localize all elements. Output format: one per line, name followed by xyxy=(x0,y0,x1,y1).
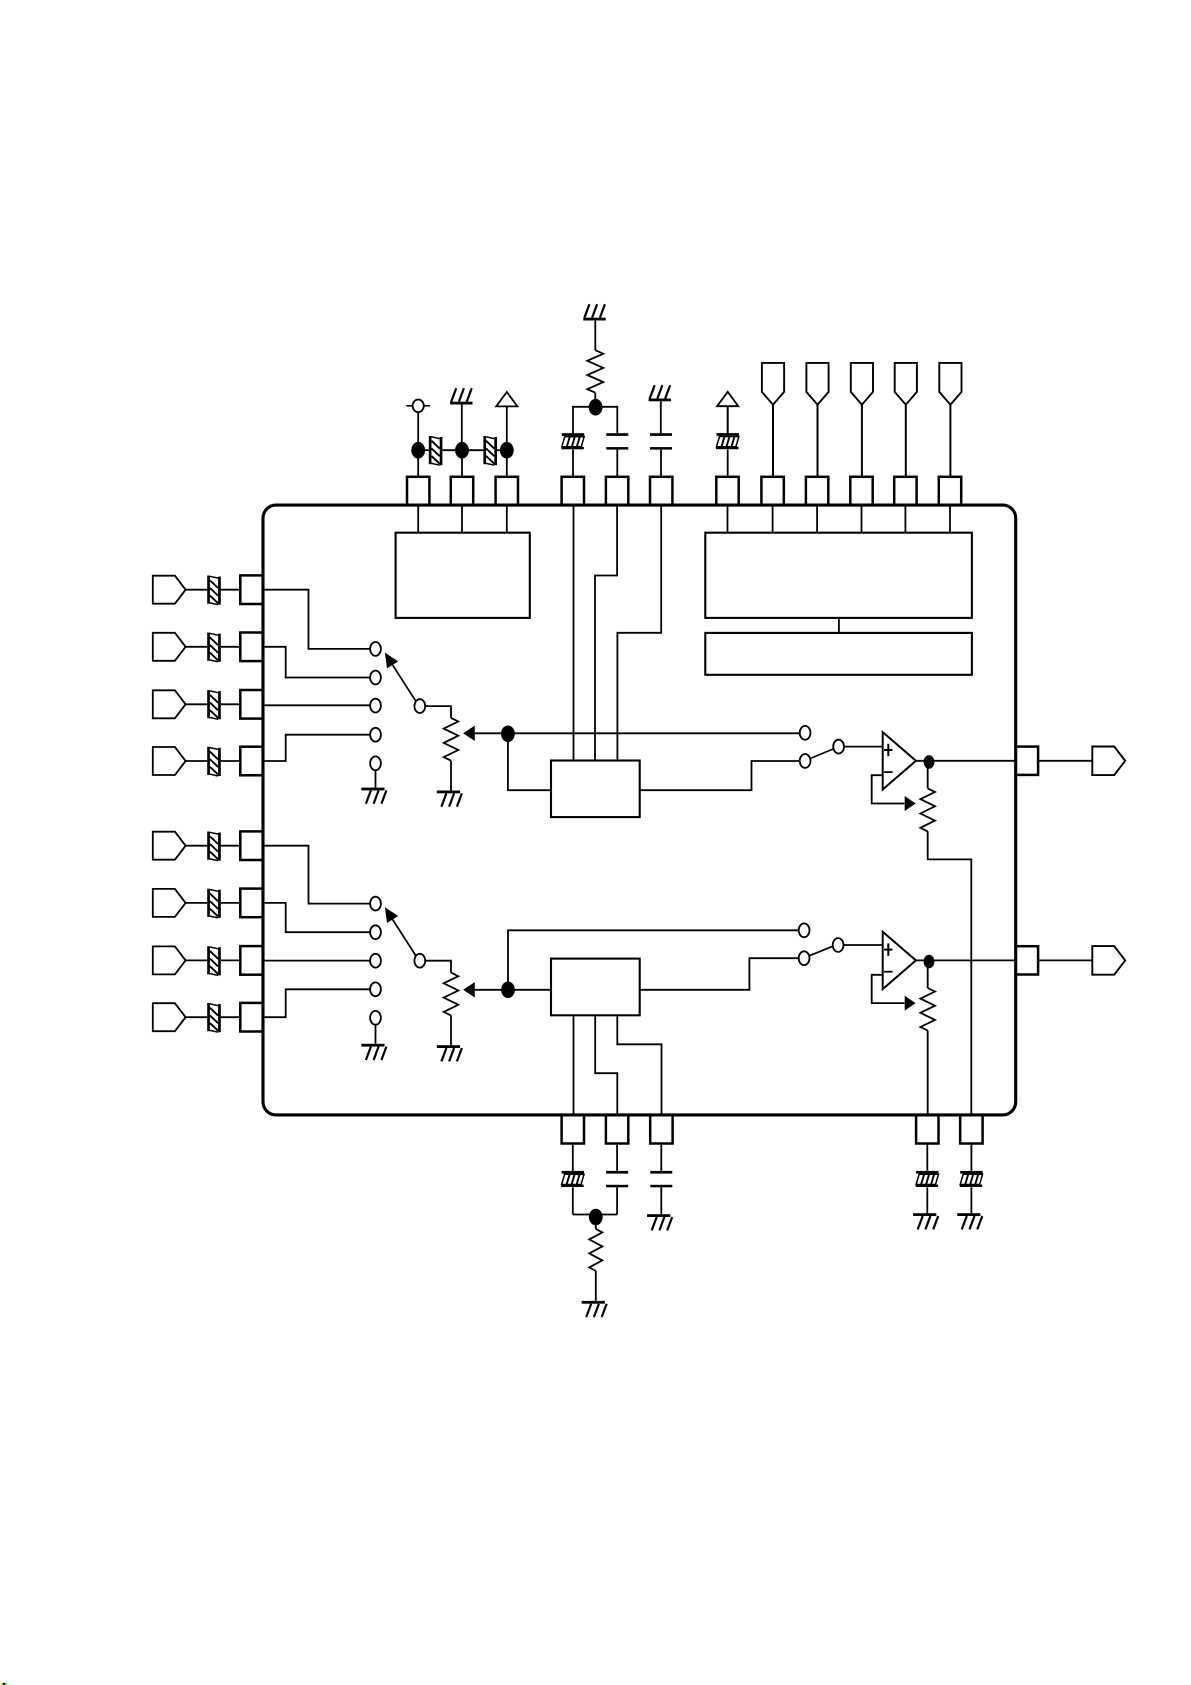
wire xyxy=(418,449,429,451)
node A1 output junction xyxy=(924,755,935,769)
wire xyxy=(186,703,208,705)
switch SW3 arrowhead xyxy=(385,907,398,923)
wire xyxy=(927,968,929,988)
capacitor C1 xyxy=(429,436,443,465)
switch SW3 contact 1 xyxy=(370,897,381,911)
wire xyxy=(926,1187,928,1213)
pin box P7 xyxy=(716,477,738,505)
wire xyxy=(844,746,883,748)
wire xyxy=(595,1015,617,1115)
ground (signal GND, up) xyxy=(450,388,472,404)
pin box P8 xyxy=(761,477,783,505)
wire xyxy=(727,450,729,477)
input connector flag IN5 xyxy=(153,832,186,860)
capacitor C3 (electrolytic) xyxy=(561,433,584,449)
wire xyxy=(594,321,596,351)
page mark (scan artifact) xyxy=(1,1683,7,1685)
wire xyxy=(970,1187,972,1213)
capacitor C15 (electrolytic) xyxy=(561,1171,584,1187)
wire xyxy=(916,760,1016,762)
wire xyxy=(221,1016,241,1018)
switch SW1 contact 5 xyxy=(370,756,381,770)
wire xyxy=(573,407,617,433)
wire xyxy=(417,450,419,477)
wire xyxy=(506,450,508,477)
VR2 wiper arrow xyxy=(463,982,475,997)
wire xyxy=(263,846,371,904)
ground (VR1) xyxy=(437,791,462,807)
capacitor C19 (electrolytic) xyxy=(960,1171,983,1187)
node A1 junction xyxy=(411,442,425,459)
wire xyxy=(221,703,241,705)
output connector flag OUT2 xyxy=(1092,946,1125,975)
pin box P5 xyxy=(606,477,628,505)
wire xyxy=(475,989,508,991)
switch SW3 arm xyxy=(393,920,416,957)
switch SW1 contact 2 xyxy=(370,671,381,685)
wire xyxy=(772,505,774,533)
pin box B3 xyxy=(650,1115,672,1144)
VCC triangle symbol 2 xyxy=(717,392,738,406)
feedback arrow A1 xyxy=(905,796,916,811)
pin box L2 xyxy=(240,633,262,662)
pin box P4 xyxy=(562,477,584,505)
connector flag J1 xyxy=(762,363,784,405)
connector flag J3 xyxy=(851,363,873,405)
wire xyxy=(595,1217,597,1229)
ground (R4) xyxy=(582,1301,607,1317)
pin box O2 xyxy=(1016,946,1038,974)
pin box B4 xyxy=(916,1115,938,1144)
pin box B5 xyxy=(960,1115,982,1144)
wire xyxy=(497,449,507,451)
wire xyxy=(660,1144,662,1171)
wire xyxy=(450,761,452,791)
wire xyxy=(660,401,662,433)
pin box B1 xyxy=(562,1115,584,1144)
switch SW1 contact 4 xyxy=(370,728,381,742)
wire xyxy=(927,1031,929,1115)
wire xyxy=(263,960,371,962)
wire xyxy=(263,989,371,1017)
internal block U4 (below U3) xyxy=(705,633,972,675)
ground (C17) xyxy=(647,1214,672,1230)
wire xyxy=(221,902,241,904)
volume potentiometer VR2 xyxy=(444,973,459,1016)
pin box P2 xyxy=(451,477,473,505)
ground (VR2) xyxy=(437,1045,462,1061)
wire xyxy=(186,845,208,847)
wire xyxy=(904,505,906,533)
input connector flag IN6 xyxy=(153,889,186,917)
capacitor C10 (input coupling) xyxy=(207,747,221,776)
switch SW4 contact a xyxy=(799,923,810,937)
wire xyxy=(221,845,241,847)
switch SW1 common contact xyxy=(414,699,425,713)
pin box P11 xyxy=(894,477,916,505)
wire xyxy=(508,734,551,790)
connector flag J4 xyxy=(895,363,917,405)
switch SW1 contact 1 xyxy=(370,642,381,656)
switch SW2 common contact xyxy=(833,740,844,754)
wire xyxy=(186,646,208,648)
connector flag J5 xyxy=(939,363,961,405)
wire xyxy=(461,505,463,533)
switch SW3 contact 4 xyxy=(370,982,381,996)
input connector flag IN2 xyxy=(153,633,186,661)
wire xyxy=(861,405,863,477)
pin box L8 xyxy=(240,1003,262,1032)
wire xyxy=(617,505,661,760)
IC U1 body outline xyxy=(263,505,1016,1115)
wire xyxy=(572,450,574,477)
wire xyxy=(816,505,818,533)
node A2 junction xyxy=(455,442,469,459)
wire xyxy=(508,930,799,990)
input connector flag IN1 xyxy=(153,576,186,604)
wire xyxy=(263,735,371,761)
wire xyxy=(872,975,905,1003)
feedback resistor R3 xyxy=(920,988,935,1031)
wire xyxy=(375,1024,377,1044)
pin box B2 xyxy=(606,1115,628,1144)
wire xyxy=(572,1144,574,1171)
switch SW3 contact 5 xyxy=(370,1011,381,1025)
wire xyxy=(221,959,241,961)
capacitor C4 xyxy=(606,433,628,449)
wire xyxy=(838,618,840,633)
capacitor C14 (input coupling) xyxy=(207,1003,221,1032)
feedback arrow A2 xyxy=(905,996,916,1011)
node D junction xyxy=(589,1209,603,1226)
pin box L5 xyxy=(240,831,262,860)
wire xyxy=(221,760,241,762)
switch SW3 contact 3 xyxy=(370,954,381,968)
pin box L4 xyxy=(240,747,262,776)
switch SW4 common contact xyxy=(833,938,844,952)
wire xyxy=(461,450,463,477)
internal block U5 (ch1 electronic volume) xyxy=(551,761,640,818)
output connector flag OUT1 xyxy=(1092,747,1125,776)
wire xyxy=(186,1016,208,1018)
wire xyxy=(1038,760,1092,762)
capacitor C13 (input coupling) xyxy=(207,946,221,975)
pin box L7 xyxy=(240,946,262,975)
input connector flag IN4 xyxy=(153,747,186,775)
pin box P10 xyxy=(850,477,872,505)
wire xyxy=(508,732,800,734)
ground (C18) xyxy=(913,1213,938,1229)
wire xyxy=(186,589,208,591)
wire xyxy=(417,412,419,450)
switch SW3 common contact xyxy=(414,954,425,968)
wire xyxy=(475,732,508,734)
capacitor C11 (input coupling) xyxy=(207,832,221,861)
wire xyxy=(843,944,882,946)
wire xyxy=(506,406,508,450)
wire xyxy=(572,1187,574,1214)
wire xyxy=(616,1144,618,1171)
wire xyxy=(970,1144,972,1171)
wire xyxy=(949,405,951,477)
wire xyxy=(928,831,972,1115)
ground (C19) xyxy=(957,1213,982,1229)
pin box L3 xyxy=(240,690,262,719)
capacitor C18 (electrolytic) xyxy=(916,1171,939,1187)
internal block U6 (ch2 electronic volume) xyxy=(551,959,640,1016)
wire xyxy=(425,961,451,973)
capacitor C2 xyxy=(483,436,497,465)
wire xyxy=(616,1187,618,1214)
wire xyxy=(573,505,575,760)
wire xyxy=(617,1015,661,1115)
internal block U2 (top-left) xyxy=(396,533,530,618)
VCC triangle symbol xyxy=(496,392,517,406)
wire xyxy=(817,405,819,477)
resistor R4 xyxy=(589,1229,602,1271)
wire xyxy=(263,590,371,649)
pin box P3 xyxy=(496,477,518,505)
wire xyxy=(905,405,907,477)
wire xyxy=(450,1016,452,1046)
ground (up) above R1 xyxy=(583,304,605,320)
wire xyxy=(442,449,462,451)
wire xyxy=(263,903,371,932)
wire xyxy=(616,450,618,477)
switch SW1 contact 3 xyxy=(370,699,381,713)
switch SW2 arm xyxy=(811,749,834,758)
pin box L1 xyxy=(240,575,262,604)
wire xyxy=(186,902,208,904)
ground (SW1 unused contact) xyxy=(361,788,386,804)
wire xyxy=(594,393,596,407)
wire xyxy=(727,406,729,433)
switch SW4 contact b xyxy=(799,951,810,965)
ground (SW3 unused contact) xyxy=(361,1044,386,1060)
pin box P1 xyxy=(407,477,429,505)
switch SW1 arrowhead xyxy=(385,653,398,669)
wire xyxy=(573,1015,575,1115)
wire xyxy=(926,1144,928,1171)
wire xyxy=(461,405,463,451)
wire xyxy=(595,505,617,760)
wire xyxy=(861,505,863,533)
internal block U3 (top-right) xyxy=(705,533,972,618)
node B junction xyxy=(589,399,603,416)
wire xyxy=(640,761,800,790)
op-amp A2 xyxy=(883,932,916,989)
pin box P9 xyxy=(806,477,828,505)
ground (up) above C5 xyxy=(649,385,671,401)
wire xyxy=(221,589,241,591)
capacitor C16 xyxy=(606,1171,628,1187)
pin box P12 xyxy=(939,477,961,505)
capacitor C17 xyxy=(650,1171,672,1187)
wire xyxy=(872,775,905,803)
VR1 wiper arrow xyxy=(463,726,475,741)
node A3 junction xyxy=(500,442,514,459)
capacitor C7 (input coupling) xyxy=(207,576,221,605)
capacitor C6 (electrolytic) xyxy=(716,433,739,449)
wire xyxy=(1038,959,1092,961)
node A2 output junction xyxy=(924,955,935,969)
wire xyxy=(375,770,377,788)
capacitor C8 (input coupling) xyxy=(207,633,221,662)
capacitor C12 (input coupling) xyxy=(207,889,221,918)
pin box P6 xyxy=(650,477,672,505)
node C2w junction xyxy=(501,982,515,999)
input connector flag IN8 xyxy=(153,1003,186,1031)
switch SW3 contact 2 xyxy=(370,925,381,939)
switch SW2 contact a xyxy=(800,726,811,740)
volume potentiometer VR1 xyxy=(444,718,459,761)
wire xyxy=(221,646,241,648)
wire xyxy=(462,449,483,451)
input connector flag IN7 xyxy=(153,946,186,974)
wire xyxy=(263,704,371,706)
wire xyxy=(573,1214,617,1216)
wire xyxy=(186,760,208,762)
wire xyxy=(186,959,208,961)
input connector flag IN3 xyxy=(153,690,186,718)
wire xyxy=(508,989,551,991)
wire xyxy=(417,505,419,533)
node C1w junction xyxy=(501,726,515,743)
pin box O1 xyxy=(1016,747,1038,775)
switch SW1 arm xyxy=(393,665,416,702)
resistor R1 xyxy=(587,350,603,393)
wire xyxy=(660,450,662,477)
wire xyxy=(640,958,799,990)
op-amp A1 xyxy=(883,732,916,789)
wire xyxy=(660,1187,662,1214)
wire xyxy=(506,505,508,533)
wire xyxy=(595,1271,597,1301)
capacitor C5 xyxy=(650,433,672,449)
wire xyxy=(263,647,371,678)
feedback resistor R2 xyxy=(920,788,935,831)
wire xyxy=(772,405,774,477)
wire xyxy=(949,505,951,533)
wire xyxy=(727,505,729,533)
terminal circle (ripple filter pin node) xyxy=(406,400,430,413)
wire xyxy=(916,959,1016,961)
connector flag J2 xyxy=(806,363,828,405)
capacitor C9 (input coupling) xyxy=(207,690,221,719)
wire xyxy=(927,768,929,788)
pin box L6 xyxy=(240,889,262,918)
switch SW4 arm xyxy=(810,946,833,955)
wire xyxy=(425,706,451,718)
switch SW2 contact b xyxy=(800,754,811,768)
